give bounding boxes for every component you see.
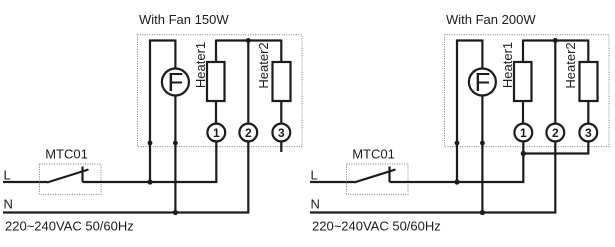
heater1 (resistive element) — [207, 62, 225, 101]
junction: bridge taps terminal 1 feed — [521, 151, 526, 156]
svg-text:N: N — [4, 196, 13, 211]
terminal 1 — [207, 124, 225, 142]
wire: heater1 bottom lead — [215, 101, 217, 124]
switch blade right — [354, 170, 396, 183]
svg-text:220~240VAC 50/60Hz: 220~240VAC 50/60Hz — [5, 219, 134, 234]
wire: fan top horizontal right — [456, 39, 482, 41]
svg-text:With Fan 150W: With Fan 150W — [139, 12, 229, 27]
svg-text:L: L — [4, 167, 11, 182]
svg-text:Heater2: Heater2 — [563, 42, 578, 88]
fan/heater unit enclosure (dashed box) right — [445, 35, 610, 147]
wire: L input to switch — [3, 181, 48, 183]
heater2 (resistive element) — [273, 62, 291, 101]
junction: fan-right taps N right — [480, 210, 485, 215]
terminal 1 right — [514, 124, 532, 142]
heater1 (resistive element) right — [514, 62, 532, 101]
svg-text:MTC01: MTC01 — [352, 146, 395, 161]
wire: heater2 bottom lead right — [587, 101, 589, 124]
junction: rail to terminal 2 — [246, 38, 251, 43]
svg-text:Heater2: Heater2 — [256, 42, 271, 88]
svg-text:F: F — [167, 67, 183, 97]
wire: fan upper lead — [174, 40, 176, 69]
wire: N line to terminal 2 — [3, 141, 248, 212]
wire: heater1 top lead — [215, 40, 217, 63]
wire: heater2 bottom lead — [280, 101, 282, 124]
terminal 2 — [239, 124, 257, 142]
wire: heater top rail — [216, 39, 281, 41]
wire: fan lower lead (to N) — [174, 96, 176, 213]
svg-text:3: 3 — [278, 126, 285, 140]
junction: fan-left taps L right — [454, 179, 459, 184]
svg-text:N: N — [311, 196, 320, 211]
fan/heater unit enclosure (dashed box) — [138, 35, 303, 147]
wire: L input to switch right — [310, 181, 355, 183]
wire: fan branch left vertical (L feed into unit) — [149, 41, 151, 183]
junction: fan-left taps L — [147, 179, 152, 184]
switch MTC01 enclosure (dashed box) right — [347, 164, 409, 194]
wire: terminal 3 stub (unconnected) — [280, 141, 282, 152]
junction: fan-left at enclosure edge right — [455, 141, 460, 146]
fan motor F — [162, 67, 189, 97]
wire: heater2 top lead right — [587, 40, 589, 63]
wire: terminal 2 feed (rail to terminal 2) — [247, 41, 249, 124]
junction: fan-right at enclosure edge — [173, 141, 178, 146]
junction: rail to terminal 2 right — [553, 38, 558, 43]
fan motor F right — [469, 67, 496, 97]
junction: fan-left at enclosure edge — [148, 141, 153, 146]
wire: heater1 top lead right — [522, 40, 524, 63]
wire: fan upper lead right — [481, 40, 483, 69]
switch blade — [47, 170, 89, 183]
wire: fan lower lead (to N) right — [481, 96, 483, 213]
wire: heater1 bottom lead right — [522, 101, 524, 124]
svg-text:1: 1 — [520, 126, 527, 140]
svg-text:F: F — [474, 67, 490, 97]
switch MTC01 enclosure (dashed box) — [40, 164, 102, 194]
wire: fan branch left vertical (L feed into unit) right — [456, 41, 458, 183]
svg-text:2: 2 — [245, 126, 252, 140]
svg-text:2: 2 — [552, 126, 559, 140]
svg-text:3: 3 — [585, 126, 592, 140]
wire: L from switch to terminal 1 right — [390, 141, 524, 182]
svg-text:With Fan 200W: With Fan 200W — [446, 12, 536, 27]
switch contact right — [388, 167, 390, 183]
svg-text:Heater1: Heater1 — [500, 42, 515, 88]
junction: fan-right at enclosure edge right — [480, 141, 485, 146]
terminal 3 right — [579, 124, 597, 142]
switch contact — [81, 167, 83, 183]
svg-text:Heater1: Heater1 — [193, 42, 208, 88]
wire: heater2 top lead — [280, 40, 282, 63]
svg-text:1: 1 — [213, 126, 220, 140]
wire: N line to terminal 2 right — [310, 141, 555, 212]
wire: heater top rail right — [523, 39, 588, 41]
wire: L from switch to terminal 1 — [83, 141, 217, 182]
svg-text:L: L — [311, 167, 318, 182]
svg-text:MTC01: MTC01 — [45, 146, 88, 161]
junction: fan-right taps N — [173, 210, 178, 215]
heater2 (resistive element) right — [580, 62, 598, 101]
terminal 2 right — [546, 124, 564, 142]
svg-text:220~240VAC 50/60Hz: 220~240VAC 50/60Hz — [312, 219, 441, 234]
wire: bridge terminal 3 to terminal 1 — [523, 141, 588, 153]
wire: terminal 2 feed right — [554, 41, 556, 124]
terminal 3 — [272, 124, 290, 142]
wire: fan top horizontal — [149, 39, 175, 41]
